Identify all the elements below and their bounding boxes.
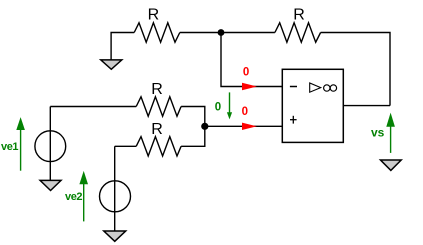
resistor R4 — [136, 137, 181, 156]
source V2 (ve2) — [100, 181, 131, 212]
wire: ve1 source branch vertical — [49, 107, 51, 181]
op-amp U1 body — [282, 69, 343, 142]
wire: R3 right down to summing node and up from R4 — [181, 107, 205, 147]
ground — [101, 60, 122, 69]
svg-text:ve1: ve1 — [1, 141, 18, 153]
current arrow i- (0) into inverting input — [242, 83, 257, 90]
svg-text:ve2: ve2 — [65, 191, 82, 203]
voltage arrow vs — [390, 118, 392, 153]
svg-text:R: R — [293, 6, 305, 23]
wire: R1 right to R2 left through node — [180, 32, 275, 34]
node A (junction dot, feedback/inverting net) — [218, 29, 225, 36]
voltage arrow ve2 — [83, 176, 85, 221]
ground — [381, 160, 402, 170]
svg-text:0: 0 — [215, 101, 221, 113]
source V1 (ve1) — [35, 131, 66, 162]
ground — [40, 180, 61, 190]
svg-text:R: R — [148, 6, 160, 23]
wire: ve2 source branch vertical — [114, 146, 116, 231]
wire: op-amp output — [343, 105, 390, 107]
svg-text:R: R — [151, 81, 163, 98]
svg-text:R: R — [151, 121, 163, 138]
wire: left of R4 — [115, 145, 137, 147]
svg-text:0: 0 — [243, 67, 249, 79]
voltage arrow ve1 — [20, 122, 22, 171]
current arrow i+ (0) into non-inverting input — [242, 123, 257, 130]
op-amp U1 triangle symbol — [310, 83, 321, 92]
node B (summing junction dot) — [201, 123, 208, 130]
voltage arrow 0 (differential input voltage, down) — [229, 92, 231, 114]
resistor R1 — [134, 23, 180, 42]
resistor R2 — [275, 23, 321, 42]
svg-text:0: 0 — [242, 106, 248, 118]
op-amp U1 inverting pin marker - — [290, 86, 297, 88]
op-amp U1 infinity symbol — [324, 85, 330, 91]
resistor R3 — [136, 97, 181, 116]
wire: R2 right, down right side to output level — [321, 33, 390, 106]
wire: summing node to non-inverting input — [205, 125, 283, 127]
op-amp U1 non-inverting pin marker + — [290, 119, 297, 121]
wire: ground stem and segment left of R1 — [111, 33, 134, 61]
wire: ve1 source up to R3 level and across to R3 — [50, 106, 136, 108]
svg-text:vs: vs — [371, 126, 385, 140]
ground — [104, 231, 126, 241]
wire: node A down to inverting input — [221, 33, 282, 87]
